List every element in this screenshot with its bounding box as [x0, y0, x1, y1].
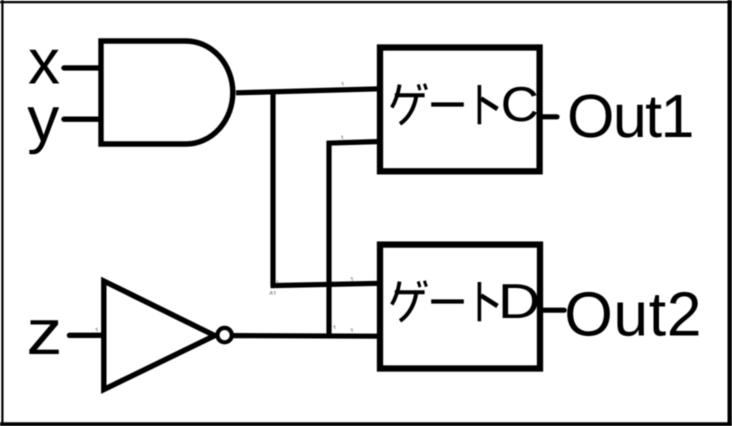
svg-text:y: y [27, 83, 59, 155]
svg-text:C: C [501, 78, 539, 132]
svg-text:Out1: Out1 [567, 82, 693, 150]
svg-text:D: D [498, 275, 541, 329]
svg-text:z: z [26, 296, 62, 368]
svg-text:Out2: Out2 [564, 279, 702, 349]
